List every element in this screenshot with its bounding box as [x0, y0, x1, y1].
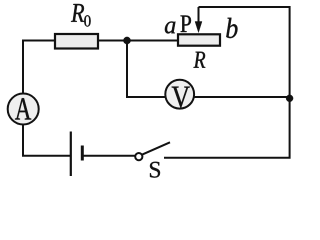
rheostat wiper arrow P	[195, 7, 202, 33]
wire: bottom-left from ammeter corner to battery long plate	[22, 155, 71, 157]
label R0	[71, 4, 91, 27]
wire: voltmeter branch from junction down and across to right side	[127, 41, 290, 98]
label b	[226, 18, 237, 38]
wire: battery short plate to switch pivot	[82, 155, 135, 157]
node: junction of R0 / rheostat / voltmeter branch	[123, 37, 130, 44]
label R	[194, 52, 206, 68]
label S	[150, 162, 160, 178]
label P	[181, 16, 192, 33]
ammeter A	[8, 94, 39, 125]
switch S: lever	[142, 142, 170, 154]
battery: long plate	[70, 132, 72, 177]
voltmeter V	[165, 80, 194, 109]
resistor R0	[55, 34, 98, 49]
rheostat R body	[178, 34, 220, 45]
node: junction on right side wire	[286, 95, 293, 102]
battery: short plate	[81, 146, 84, 161]
wire: switch fixed contact, bottom-right corner, right side up to wiper feed	[164, 7, 290, 158]
switch S: pivot contact	[135, 153, 142, 160]
wire: left side loop from bottom corner up and across to rheostat terminal a	[23, 41, 177, 157]
label a	[165, 22, 176, 34]
